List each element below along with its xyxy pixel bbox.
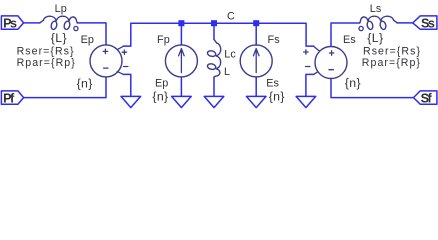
ground (Ep control) <box>121 96 141 107</box>
wire Lc top stub <box>213 23 215 39</box>
node junction at Fp top <box>178 20 184 26</box>
svg-text:Ss: Ss <box>421 17 435 31</box>
wire Lc bottom stub <box>213 77 215 96</box>
ground (Lc) <box>204 96 224 107</box>
svg-text:{n}: {n} <box>77 76 93 90</box>
port Ps flag <box>1 16 23 29</box>
svg-text:Es: Es <box>266 77 279 89</box>
Es plus mark (inside top) <box>329 51 333 55</box>
wire Es lower control to ground <box>306 74 314 96</box>
Ep control plus mark <box>122 50 126 54</box>
wire Ps to Lp <box>24 22 40 24</box>
svg-text:Ep: Ep <box>81 34 94 46</box>
Ep plus mark (inside top) <box>103 49 107 53</box>
svg-text:{L}: {L} <box>367 31 383 45</box>
svg-text:Ls: Ls <box>370 3 382 15</box>
svg-text:Fs: Fs <box>268 34 281 46</box>
svg-text:{n}: {n} <box>269 90 285 104</box>
wire Es bottom pin to Sf <box>331 79 414 98</box>
wire Ls to Ss <box>397 22 413 24</box>
wire Lp lead to Ep top pin <box>77 23 106 45</box>
inductor Lc winding <box>207 39 221 77</box>
svg-text:Sf: Sf <box>421 91 433 105</box>
svg-text:Rser={Rs}: Rser={Rs} <box>17 45 75 57</box>
svg-text:{L}: {L} <box>51 31 67 45</box>
wire Fp top stub <box>180 23 182 45</box>
svg-text:Rser={Rs}: Rser={Rs} <box>363 45 421 57</box>
wire Ep lower control to ground <box>123 74 131 96</box>
inductor Lp winding <box>40 16 78 30</box>
svg-text:Fp: Fp <box>157 34 170 46</box>
wire Fp bottom stub <box>180 77 182 96</box>
Es minus mark (inside bottom) <box>329 69 333 71</box>
Ep minus mark (inside bottom) <box>104 67 108 69</box>
node junction at Fs top <box>253 20 259 26</box>
wire Fs top stub <box>255 23 257 45</box>
svg-text:Rpar={Rp}: Rpar={Rp} <box>17 57 76 69</box>
wire Pf to Ep bottom pin <box>24 77 106 97</box>
inductor Ls winding <box>359 16 397 30</box>
CCCS Fp circle <box>165 45 197 77</box>
svg-text:Ps: Ps <box>3 17 17 31</box>
Fs arrow <box>253 49 259 73</box>
Es control plus mark <box>304 50 308 54</box>
inductor Lp phase dot <box>74 26 78 30</box>
CCCS Fs circle <box>240 45 272 77</box>
wire top bus with Ep/Es control risers <box>123 23 313 46</box>
wire Es top pin to Ls <box>331 23 360 46</box>
port Ss flag <box>413 16 437 29</box>
VCVS Es circle <box>315 47 347 79</box>
ground (Es control) <box>296 96 316 107</box>
svg-text:{n}: {n} <box>152 90 168 104</box>
svg-text:C: C <box>227 11 235 23</box>
svg-text:Lp: Lp <box>55 3 67 15</box>
wire Fs bottom stub <box>255 77 257 96</box>
inductor Ls phase dot <box>359 26 363 30</box>
svg-text:Rpar={Rp}: Rpar={Rp} <box>362 57 421 69</box>
ground (Fs) <box>246 96 266 107</box>
Es control minus mark <box>306 66 310 68</box>
svg-text:Ep: Ep <box>155 77 168 89</box>
svg-text:L: L <box>224 66 230 78</box>
ground (Fp) <box>172 96 192 107</box>
op-amp/none: VCVS Ep circle <box>90 45 122 77</box>
port Pf flag <box>1 91 23 104</box>
port Sf flag <box>414 91 437 104</box>
Ep control diagonal stubs <box>117 46 123 74</box>
svg-text:Lc: Lc <box>224 49 236 61</box>
svg-text:Es: Es <box>343 34 356 46</box>
Ep control minus mark <box>124 66 128 68</box>
Fp arrow <box>179 49 185 73</box>
svg-text:{n}: {n} <box>345 76 361 90</box>
svg-text:Pf: Pf <box>3 91 15 105</box>
node junction at Lc top <box>211 20 217 26</box>
Es control diagonal stubs <box>314 46 320 74</box>
